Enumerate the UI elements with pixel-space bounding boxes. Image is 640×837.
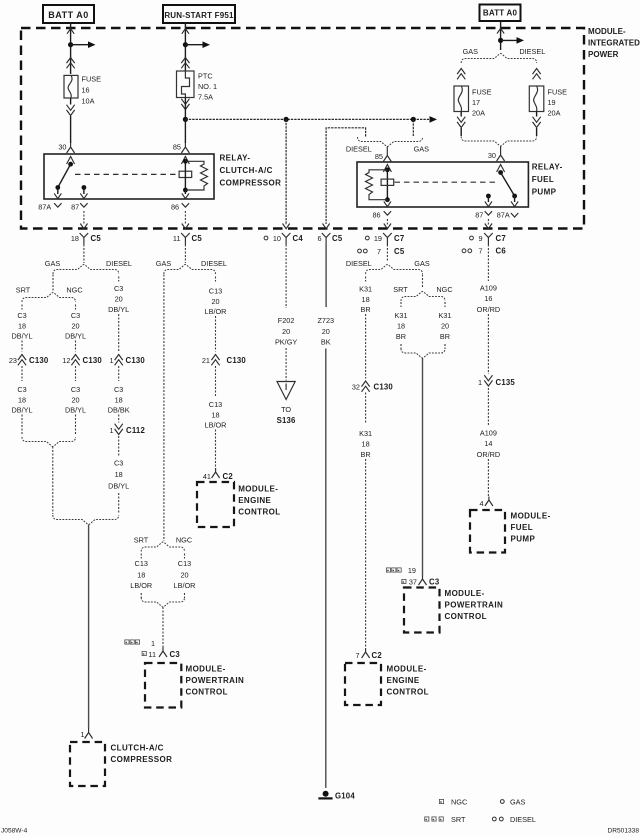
svg-text:C130: C130 <box>227 356 247 365</box>
relay-fuel coil dashed actuator line <box>395 181 498 183</box>
svg-text:12: 12 <box>62 356 70 365</box>
relay-clutch contact dot 87 <box>82 185 87 190</box>
svg-text:FUSE: FUSE <box>548 88 568 97</box>
wire relay-clutch 87 to boundary <box>83 211 85 225</box>
module fuel pump box <box>470 510 505 553</box>
relay-fuel coil vertical wire with dots <box>386 170 388 200</box>
inline connector chevrons below PTC <box>181 104 189 110</box>
relay-clutch pin30 entry arrow <box>67 157 75 165</box>
svg-text:FUSE: FUSE <box>472 88 492 97</box>
svg-text:GAS: GAS <box>45 259 61 268</box>
svg-text:BR: BR <box>361 305 371 314</box>
svg-text:16: 16 <box>82 86 90 95</box>
svg-text:C2: C2 <box>372 651 383 660</box>
relay-clutch coil resistor <box>185 161 207 190</box>
arrow up at border crossing (right BATT feed) <box>497 28 504 33</box>
svg-text:86: 86 <box>372 211 380 220</box>
arrow up at border crossing (RUN-START feed) <box>182 29 189 34</box>
svg-text:FUSE: FUSE <box>82 75 102 84</box>
relay-fuel 87 terminal chevron <box>485 211 492 215</box>
svg-text:C3: C3 <box>114 458 123 467</box>
svg-text:87A: 87A <box>38 203 51 212</box>
svg-text:C3: C3 <box>71 385 80 394</box>
wire C5-18 stem down <box>83 245 85 264</box>
pin 7 terminal symbol <box>362 649 370 659</box>
svg-text:RELAY-: RELAY- <box>220 154 251 163</box>
relay-clutch 86 terminal chevron <box>182 203 189 207</box>
svg-text:GAS: GAS <box>414 259 430 268</box>
svg-text:87A: 87A <box>497 211 510 220</box>
svg-text:20A: 20A <box>472 109 485 118</box>
svg-text:C112: C112 <box>126 426 145 435</box>
pin terminal symbol powertrain C3 right <box>419 576 427 586</box>
relay R2 fuel pump body <box>357 162 528 207</box>
svg-text:COMPRESSOR: COMPRESSOR <box>220 179 282 188</box>
split brace GAS/DIESEL (middle) <box>164 265 216 275</box>
relay-clutch 87A open terminal chevron <box>54 203 61 207</box>
merge brace SRT+NGC (middle) <box>141 598 184 608</box>
svg-text:Z723: Z723 <box>317 316 334 325</box>
svg-text:20: 20 <box>322 327 330 336</box>
connector C130 cavity 1 <box>115 355 123 361</box>
svg-text:POWERTRAIN: POWERTRAIN <box>186 676 245 685</box>
GAS fuse branch chevrons <box>457 69 465 75</box>
svg-text:1: 1 <box>151 639 155 648</box>
svg-text:DIESEL: DIESEL <box>510 815 536 824</box>
svg-text:RELAY-: RELAY- <box>532 163 563 172</box>
svg-text:11: 11 <box>148 650 156 659</box>
svg-text:14: 14 <box>484 439 492 448</box>
svg-text:PK/GY: PK/GY <box>275 337 297 346</box>
ticks below SRT NGC (middle) <box>140 554 142 559</box>
svg-text:18: 18 <box>18 395 26 404</box>
arrow into boundary for C5 cavity 6 branch <box>323 224 330 229</box>
svg-text:DIESEL: DIESEL <box>106 259 132 268</box>
svg-text:18: 18 <box>397 321 405 330</box>
svg-text:CONTROL: CONTROL <box>387 688 429 697</box>
GAS branch wire (left) <box>52 275 54 292</box>
fuse F16 <box>64 75 78 98</box>
svg-text:C130: C130 <box>29 356 49 365</box>
fuse F19 <box>529 86 544 112</box>
svg-text:C135: C135 <box>496 378 516 387</box>
svg-text:SRT: SRT <box>451 815 466 824</box>
svg-text:18: 18 <box>115 470 123 479</box>
merged wire down to powertrain C3 <box>162 607 164 647</box>
svg-text:RUN-START F951: RUN-START F951 <box>164 11 234 20</box>
svg-text:FUEL: FUEL <box>511 523 534 532</box>
long GAS wire down (middle) <box>163 275 165 542</box>
svg-text:20: 20 <box>282 327 290 336</box>
svg-text:POWER: POWER <box>588 50 619 59</box>
svg-text:DB/YL: DB/YL <box>11 331 32 340</box>
wire junction down to relay-clutch pin 85 <box>184 119 186 143</box>
junction dot to fuel-relay GAS branch <box>411 117 416 122</box>
svg-text:86: 86 <box>171 203 179 212</box>
svg-text:COMPRESSOR: COMPRESSOR <box>111 755 173 764</box>
module-integrated power dashed boundary box <box>21 28 584 229</box>
NGC variant square and pin 11 <box>142 651 146 655</box>
svg-text:7.5A: 7.5A <box>198 93 213 102</box>
pin 85 terminal symbol (relay-fuel) <box>383 147 391 162</box>
svg-text:C3: C3 <box>17 311 26 320</box>
svg-text:A109: A109 <box>480 283 497 292</box>
svg-text:1: 1 <box>109 426 113 435</box>
module powertrain control box (left) <box>145 663 181 708</box>
svg-text:DIESEL: DIESEL <box>346 144 372 153</box>
relay-fuel contact dot 87A <box>512 194 517 199</box>
ticks above merge (middle) <box>140 593 142 598</box>
fuse F17 <box>454 86 469 112</box>
GAS branch wire (right) <box>422 275 424 289</box>
svg-text:20: 20 <box>71 321 79 330</box>
wire fuse 16 to relay pin 30 <box>70 98 72 105</box>
svg-text:GAS: GAS <box>156 259 172 268</box>
connector C130 cavity 32 <box>362 381 370 387</box>
pin 41 terminal symbol <box>212 468 220 478</box>
svg-text:ENGINE: ENGINE <box>238 496 271 505</box>
svg-text:CLUTCH-A/C: CLUTCH-A/C <box>220 166 273 175</box>
svg-text:K31: K31 <box>359 429 372 438</box>
long ground wire Z723 down to G104 <box>325 349 327 789</box>
svg-text:C6: C6 <box>496 247 507 256</box>
svg-text:DB/YL: DB/YL <box>108 481 129 490</box>
svg-text:18: 18 <box>211 410 219 419</box>
svg-text:41: 41 <box>203 472 211 481</box>
module engine control box (middle) <box>197 482 234 527</box>
svg-text:21: 21 <box>202 356 210 365</box>
svg-text:PUMP: PUMP <box>532 188 557 197</box>
svg-text:MODULE-: MODULE- <box>445 589 485 598</box>
svg-text:DB/YL: DB/YL <box>108 305 129 314</box>
svg-text:CLUTCH-A/C: CLUTCH-A/C <box>111 744 164 753</box>
tick below DIESEL (right) <box>365 277 367 282</box>
power source box BATT A0 (left) <box>43 5 94 23</box>
wire C7-9 stem down (A109) <box>487 262 489 281</box>
relay-fuel 87A open terminal chevron <box>511 213 518 217</box>
module powertrain control box (right) <box>404 588 440 633</box>
svg-text:85: 85 <box>375 152 383 161</box>
wire fuel 87A to case edge <box>514 196 516 202</box>
svg-text:SRT: SRT <box>393 285 408 294</box>
svg-text:NO. 1: NO. 1 <box>198 82 217 91</box>
inline connector chevrons below fuse 16 <box>67 110 75 116</box>
svg-text:1: 1 <box>80 730 84 739</box>
relay-fuel pin30 entry arrow <box>497 165 505 173</box>
svg-text:7: 7 <box>478 247 482 256</box>
junction dot on RUN-START feed <box>183 42 188 47</box>
svg-text:DB/YL: DB/YL <box>65 405 86 414</box>
wire corner from horizontal feed to C5 cavity6 branch <box>326 128 366 224</box>
PTC No.1 device <box>177 71 195 98</box>
svg-text:BR: BR <box>396 332 406 341</box>
svg-text:MODULE-: MODULE- <box>238 485 278 494</box>
tick below DIESEL (left) <box>118 277 120 282</box>
relay-clutch pin85 entry arrow <box>181 157 189 165</box>
relay-fuel pin85 entry arrow <box>383 165 391 173</box>
svg-text:4: 4 <box>479 499 483 508</box>
wire segments below C130 row <box>21 366 23 381</box>
junction dot to C4 branch <box>284 117 289 122</box>
variant square and pin 37 <box>402 579 406 583</box>
tick below NGC <box>75 305 77 310</box>
svg-text:DIESEL: DIESEL <box>519 47 545 56</box>
svg-text:C13: C13 <box>178 559 191 568</box>
svg-text:DB/YL: DB/YL <box>65 331 86 340</box>
svg-text:1: 1 <box>109 356 113 365</box>
svg-text:20A: 20A <box>548 109 561 118</box>
svg-text:37: 37 <box>409 577 417 586</box>
svg-text:NGC: NGC <box>66 285 82 294</box>
svg-text:G104: G104 <box>335 792 355 801</box>
svg-text:C3: C3 <box>114 284 123 293</box>
wire C5-6 stem down (Z723) <box>325 245 327 308</box>
wire fuel 86 to case edge <box>386 200 388 202</box>
relay-clutch coil vertical wire with dots <box>184 161 186 190</box>
connector C130 cavity 23 <box>18 355 26 361</box>
svg-text:18: 18 <box>137 570 145 579</box>
svg-text:BR: BR <box>440 332 450 341</box>
connector C5 cavity 11 <box>181 233 190 245</box>
svg-text:MODULE-: MODULE- <box>588 27 626 36</box>
svg-text:C3: C3 <box>170 650 181 659</box>
feed arrow to right (left BATT) <box>71 44 90 46</box>
feed arrow to right (right BATT) <box>501 39 518 41</box>
relay-fuel common dot pin30 <box>498 170 503 175</box>
arrow up at border crossing (left BATT feed) <box>67 29 74 34</box>
svg-text:17: 17 <box>472 98 480 107</box>
svg-text:BATT A0: BATT A0 <box>483 9 518 18</box>
svg-text:C7: C7 <box>394 234 404 243</box>
pin 30 terminal symbol (relay-fuel) <box>497 146 505 161</box>
relay-clutch switch arm 30->87A <box>58 164 71 187</box>
ground G104 symbol <box>323 791 329 797</box>
svg-text:GAS: GAS <box>414 144 430 153</box>
svg-text:C3: C3 <box>114 385 123 394</box>
pin 4 terminal symbol <box>485 497 493 507</box>
svg-text:20: 20 <box>115 294 123 303</box>
svg-text:BATT A0: BATT A0 <box>48 10 89 20</box>
svg-text:NGC: NGC <box>176 535 192 544</box>
legend SRT squares symbol <box>425 817 429 821</box>
svg-text:K31: K31 <box>395 311 408 320</box>
variant squares and pin 19 <box>386 568 390 572</box>
DIESEL fuse branch chevrons <box>533 69 541 75</box>
connector C4 cavity 10 with GAS circle <box>264 236 268 240</box>
connector C6 cavity 7 with DIESEL circles <box>462 249 466 253</box>
merged wire down to powertrain C3 (right) <box>422 358 424 576</box>
svg-text:23: 23 <box>9 356 17 365</box>
svg-text:OR/RD: OR/RD <box>477 305 501 314</box>
wire segments to C130 row <box>21 341 23 352</box>
svg-text:30: 30 <box>488 151 496 160</box>
svg-text:BK: BK <box>321 337 331 346</box>
svg-text:9: 9 <box>478 234 482 243</box>
svg-text:C3: C3 <box>71 311 80 320</box>
relay-clutch contact dot 87A <box>55 185 60 190</box>
svg-text:MODULE-: MODULE- <box>511 512 551 521</box>
legend NGC square symbol <box>439 799 443 803</box>
svg-text:20: 20 <box>441 321 449 330</box>
connector C130 cavity 12 <box>71 355 79 361</box>
inline connector chevrons above fuse 16 <box>67 58 75 64</box>
svg-text:19: 19 <box>408 566 416 575</box>
svg-text:A109: A109 <box>480 428 497 437</box>
wire relay-fuel 87 to boundary <box>487 219 489 225</box>
svg-text:85: 85 <box>173 143 181 152</box>
wire relay-clutch 86 to boundary <box>184 211 186 225</box>
svg-text:S136: S136 <box>277 416 296 425</box>
connector C7 cavity 19 with GAS circle <box>365 236 369 240</box>
merge brace SRT+NGC (left) <box>22 437 76 447</box>
svg-text:C7: C7 <box>496 234 506 243</box>
svg-text:MODULE-: MODULE- <box>387 665 427 674</box>
svg-text:10A: 10A <box>82 97 95 106</box>
split brace DIESEL/GAS (right) <box>366 265 423 275</box>
wire PTC to splice junction <box>184 98 186 120</box>
connector C5 cavity 6 <box>322 233 331 245</box>
pin 1 terminal symbol clutch compressor <box>85 728 93 739</box>
svg-text:MODULE-: MODULE- <box>186 665 226 674</box>
relay-clutch 87 terminal chevron <box>80 203 87 207</box>
wire below C112 <box>118 436 120 456</box>
svg-text:F202: F202 <box>278 316 295 325</box>
svg-text:BR: BR <box>361 450 371 459</box>
tick below DIESEL (middle) <box>215 277 217 282</box>
relay-fuel coil element <box>381 179 394 185</box>
svg-text:C2: C2 <box>223 472 234 481</box>
svg-text:16: 16 <box>484 294 492 303</box>
wire 87A contact to case edge <box>57 188 59 195</box>
splice dot below PTC <box>183 117 188 122</box>
relay-fuel coil resistor (left) <box>366 170 388 200</box>
svg-text:GAS: GAS <box>463 47 479 56</box>
svg-text:1: 1 <box>478 378 482 387</box>
svg-text:DB/YL: DB/YL <box>11 405 32 414</box>
svg-text:INTEGRATED: INTEGRATED <box>588 39 640 48</box>
connector C112 cavity 1 <box>115 429 123 435</box>
wire from left BATT A0 down into power module <box>70 23 72 74</box>
split brace SRT/NGC (left tree) <box>22 293 76 303</box>
svg-text:ENGINE: ENGINE <box>387 676 420 685</box>
svg-text:K31: K31 <box>439 311 452 320</box>
pin 30 terminal symbol <box>67 141 75 153</box>
svg-text:LB/OR: LB/OR <box>205 420 227 429</box>
relay-clutch pin86 exit arrow <box>184 190 186 194</box>
junction dot on right BATT feed <box>498 38 503 43</box>
NGC/SRT variant squares row 1 and pin 1 <box>125 640 129 644</box>
connector C5 cavity 7 with DIESEL circles <box>358 249 362 253</box>
svg-text:7: 7 <box>377 247 381 256</box>
legend DIESEL circles symbol <box>492 817 496 821</box>
ticks above merge (right) <box>400 344 402 349</box>
svg-text:C130: C130 <box>83 356 103 365</box>
pin terminal symbol powertrain C3 <box>159 647 167 657</box>
svg-text:POWERTRAIN: POWERTRAIN <box>445 601 504 610</box>
wire C4-10 stem down <box>285 245 287 309</box>
svg-text:20: 20 <box>180 570 188 579</box>
connector C7 cavity 9 with GAS circle <box>470 236 474 240</box>
relay-clutch common dot pin30 <box>68 162 73 167</box>
svg-text:11: 11 <box>173 234 181 243</box>
relay-fuel contact dot 87 <box>486 194 491 199</box>
svg-text:10: 10 <box>273 234 281 243</box>
svg-text:19: 19 <box>548 98 556 107</box>
split brace to GAS and DIESEL fuses <box>461 54 536 64</box>
power source box RUN-START F951 <box>163 5 235 23</box>
split brace GAS/DIESEL (left tree) <box>53 265 119 275</box>
svg-text:18: 18 <box>362 439 370 448</box>
svg-text:6: 6 <box>317 234 321 243</box>
power source box BATT A0 (right) <box>480 5 521 22</box>
svg-text:DR501338: DR501338 <box>607 828 639 835</box>
relay-clutch coil dashed actuator line <box>75 173 179 175</box>
split brace SRT/NGC (middle) <box>141 542 184 552</box>
svg-text:TO: TO <box>281 405 291 414</box>
merged GAS wire down (left) <box>52 447 54 515</box>
feed arrow to right (RUN-START) <box>185 44 204 46</box>
wire from right BATT A0 down <box>500 21 502 50</box>
wire C4 branch down from feed junction <box>285 119 287 225</box>
svg-text:FUEL: FUEL <box>532 175 555 184</box>
wire relay-fuel 86 to boundary <box>386 219 388 225</box>
svg-text:C13: C13 <box>135 559 148 568</box>
wire C5-11 stem down <box>184 245 186 264</box>
merge brace above relay-fuel pin 30 <box>461 137 536 147</box>
chevrons below fuse 19 <box>533 122 541 128</box>
svg-text:CONTROL: CONTROL <box>186 688 228 697</box>
svg-text:20: 20 <box>71 395 79 404</box>
svg-text:PUMP: PUMP <box>511 535 536 544</box>
wire 87 contact to case edge <box>83 188 85 195</box>
inline connector chevrons above PTC <box>181 58 189 64</box>
svg-text:C3: C3 <box>429 577 440 586</box>
svg-text:SRT: SRT <box>134 535 149 544</box>
svg-text:LB/OR: LB/OR <box>174 581 196 590</box>
svg-text:32: 32 <box>352 382 360 391</box>
connector C5 cavity 18 <box>80 233 89 245</box>
svg-text:DIESEL: DIESEL <box>201 259 227 268</box>
pin 85 terminal symbol <box>181 141 189 153</box>
svg-text:C5: C5 <box>192 234 203 243</box>
svg-text:SRT: SRT <box>16 285 31 294</box>
svg-text:DB/BK: DB/BK <box>108 405 130 414</box>
connector C130 cavity 21 <box>211 355 219 361</box>
svg-text:30: 30 <box>58 143 66 152</box>
svg-text:19: 19 <box>374 234 382 243</box>
svg-text:C3: C3 <box>17 385 26 394</box>
svg-text:18: 18 <box>362 295 370 304</box>
svg-text:18: 18 <box>18 321 26 330</box>
svg-text:GAS: GAS <box>510 798 526 807</box>
svg-text:87: 87 <box>475 211 483 220</box>
wire fuel 87 to case edge <box>487 196 489 202</box>
svg-text:K31: K31 <box>359 284 372 293</box>
off-page connector triangle to S136 <box>277 382 295 400</box>
svg-text:CONTROL: CONTROL <box>445 612 487 621</box>
wire from RUN-START F951 down into power module <box>184 23 186 71</box>
svg-text:C130: C130 <box>126 356 146 365</box>
svg-text:J058W-4: J058W-4 <box>1 828 28 835</box>
horizontal feed wire across module at y=119 <box>185 118 429 120</box>
svg-text:C5: C5 <box>91 234 102 243</box>
svg-text:OR/RD: OR/RD <box>477 450 501 459</box>
svg-text:C13: C13 <box>209 286 222 295</box>
clutch A/C compressor module box <box>70 742 105 786</box>
svg-text:C130: C130 <box>374 382 394 391</box>
relay-fuel switch arm 30->87A <box>501 173 515 197</box>
junction dot on left BATT feed <box>68 42 73 47</box>
